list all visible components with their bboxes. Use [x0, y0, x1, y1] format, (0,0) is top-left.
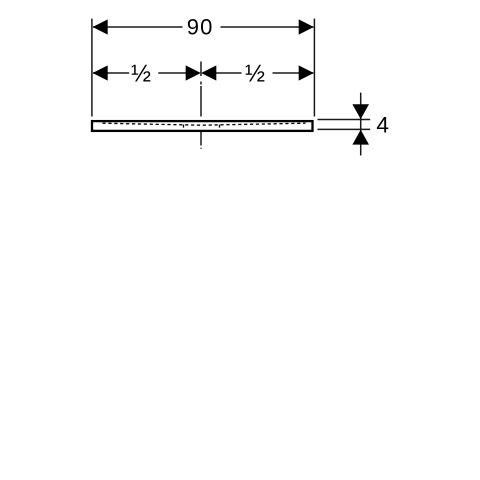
dimension line 90 left segment: [93, 26, 183, 28]
dimension line half left: seg b: [158, 72, 186, 74]
svg-text:90: 90: [187, 15, 214, 40]
arrow right of right half dimension: [299, 65, 314, 80]
thickness bottom extension line: [318, 128, 371, 130]
centerline end dot: [200, 148, 202, 149]
drain edge tick right: [219, 125, 221, 128]
dimension line 90 right segment: [221, 26, 314, 28]
right extension line: [313, 19, 315, 117]
shower tray profile rectangle: [92, 121, 313, 131]
arrow at centerline pointing right: [186, 65, 201, 80]
arrow left of left half dimension: [93, 65, 108, 80]
dashed tray surface sloping to centre: [103, 123, 306, 125]
arrow below thickness pointing up: [352, 130, 369, 145]
arrow right of dimension 90: [299, 19, 314, 34]
thickness top extension line: [318, 119, 371, 121]
centerline dot: [200, 82, 202, 85]
drain edge tick left: [183, 125, 185, 128]
arrow at centerline pointing left: [201, 65, 216, 80]
svg-text:4: 4: [376, 113, 389, 138]
arrow left of dimension 90: [93, 19, 108, 34]
dimension line half left: seg a: [93, 72, 129, 74]
left extension line: [91, 19, 93, 117]
arrow above thickness pointing down: [352, 104, 369, 119]
centerline lower solid segment above tray: [200, 86, 202, 117]
dimension line half right: seg a: [216, 72, 242, 74]
thickness dimension vertical line: [360, 93, 362, 156]
centerline segment below tray: [200, 132, 202, 146]
svg-text:½: ½: [131, 61, 151, 88]
svg-text:½: ½: [245, 61, 265, 88]
centerline upper solid segment: [200, 62, 202, 77]
dimension line half right: seg b: [273, 72, 314, 74]
